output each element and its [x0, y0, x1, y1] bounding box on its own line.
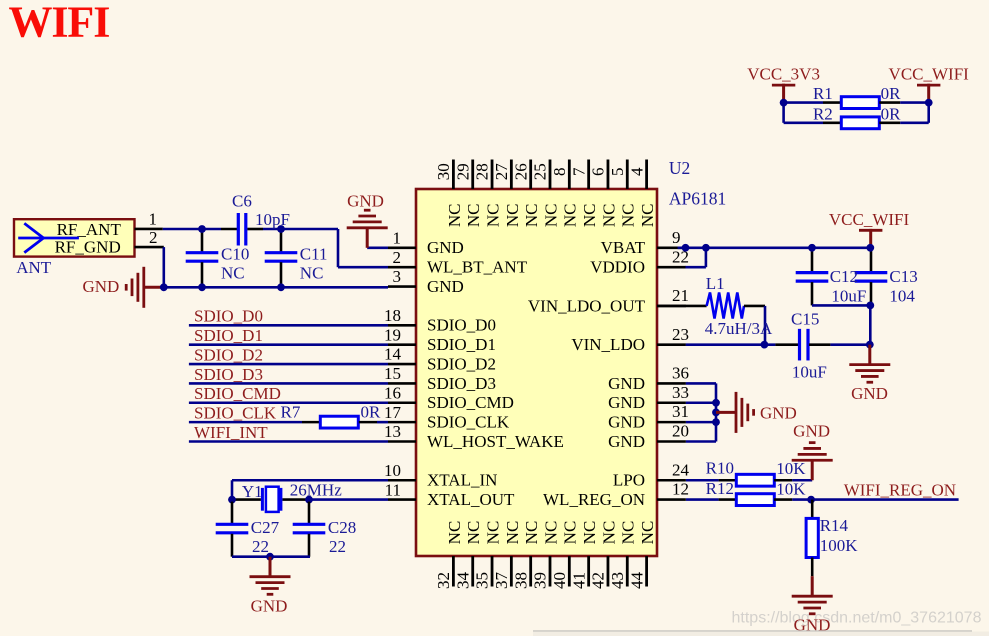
- svg-text:LPO: LPO: [613, 471, 645, 490]
- svg-text:39: 39: [531, 572, 550, 589]
- svg-text:GND: GND: [608, 374, 645, 393]
- svg-text:12: 12: [672, 480, 689, 499]
- svg-text:VDDIO: VDDIO: [590, 258, 645, 277]
- svg-text:NC: NC: [580, 203, 599, 227]
- svg-text:10K: 10K: [776, 479, 806, 498]
- svg-text:GND: GND: [608, 413, 645, 432]
- svg-text:NC: NC: [619, 203, 638, 227]
- svg-text:C12: C12: [830, 267, 858, 286]
- svg-text:30: 30: [434, 163, 453, 180]
- svg-text:RF_GND: RF_GND: [55, 237, 121, 256]
- svg-text:SDIO_D3: SDIO_D3: [427, 374, 496, 393]
- svg-text:GND: GND: [760, 404, 797, 423]
- svg-text:NC: NC: [638, 203, 657, 227]
- svg-text:43: 43: [608, 572, 627, 589]
- svg-text:7: 7: [569, 167, 588, 176]
- svg-text:26MHz: 26MHz: [290, 481, 342, 500]
- svg-text:U2: U2: [669, 158, 690, 178]
- svg-text:NC: NC: [445, 203, 464, 227]
- svg-text:NC: NC: [541, 521, 560, 545]
- svg-text:100K: 100K: [820, 536, 859, 555]
- svg-text:R10: R10: [706, 459, 734, 478]
- svg-text:NC: NC: [221, 264, 245, 283]
- svg-text:AP6181: AP6181: [669, 189, 726, 209]
- svg-text:22: 22: [252, 537, 269, 556]
- svg-text:C28: C28: [328, 518, 356, 537]
- svg-text:WIFI: WIFI: [9, 0, 110, 46]
- svg-text:GND: GND: [793, 422, 830, 441]
- svg-text:11: 11: [385, 480, 401, 499]
- svg-text:15: 15: [384, 364, 401, 383]
- svg-text:10K: 10K: [776, 459, 806, 478]
- svg-text:NC: NC: [580, 521, 599, 545]
- svg-text:14: 14: [384, 345, 402, 364]
- svg-text:R7: R7: [281, 403, 301, 422]
- svg-text:SDIO_D0: SDIO_D0: [427, 316, 496, 335]
- svg-text:2: 2: [393, 248, 402, 267]
- svg-text:https://blog.csdn.net/m0_37621: https://blog.csdn.net/m0_37621078: [732, 610, 982, 627]
- svg-text:SDIO_CLK: SDIO_CLK: [427, 413, 510, 432]
- svg-text:NC: NC: [483, 203, 502, 227]
- svg-text:NC: NC: [464, 521, 483, 545]
- svg-text:SDIO_CMD: SDIO_CMD: [194, 384, 281, 403]
- svg-text:VCC_3V3: VCC_3V3: [747, 65, 820, 84]
- svg-text:NC: NC: [445, 521, 464, 545]
- svg-text:C27: C27: [251, 518, 280, 537]
- svg-text:104: 104: [889, 286, 915, 305]
- svg-text:VCC_WIFI: VCC_WIFI: [829, 210, 910, 229]
- svg-text:10uF: 10uF: [831, 286, 866, 305]
- svg-text:10uF: 10uF: [792, 363, 827, 382]
- svg-text:25: 25: [531, 163, 550, 180]
- svg-text:NC: NC: [541, 203, 560, 227]
- svg-text:VCC_WIFI: VCC_WIFI: [889, 65, 970, 84]
- svg-text:WIFI_REG_ON: WIFI_REG_ON: [844, 480, 956, 499]
- svg-text:VIN_LDO: VIN_LDO: [571, 335, 645, 354]
- svg-text:41: 41: [569, 572, 588, 589]
- svg-text:1: 1: [393, 229, 402, 248]
- svg-text:18: 18: [384, 306, 401, 325]
- svg-text:NC: NC: [464, 203, 483, 227]
- svg-text:0R: 0R: [881, 105, 902, 124]
- svg-text:GND: GND: [427, 238, 464, 257]
- svg-text:C6: C6: [232, 191, 252, 210]
- svg-text:L1: L1: [706, 274, 725, 293]
- svg-text:WL_BT_ANT: WL_BT_ANT: [427, 258, 528, 277]
- svg-text:RF_ANT: RF_ANT: [57, 220, 122, 239]
- svg-text:NC: NC: [561, 203, 580, 227]
- svg-text:10: 10: [384, 461, 401, 480]
- svg-text:SDIO_D2: SDIO_D2: [427, 354, 496, 373]
- svg-text:44: 44: [627, 572, 646, 590]
- svg-text:GND: GND: [347, 191, 384, 210]
- svg-text:NC: NC: [561, 521, 580, 545]
- svg-text:9: 9: [672, 228, 681, 247]
- svg-text:37: 37: [492, 572, 511, 590]
- svg-text:NC: NC: [300, 264, 324, 283]
- svg-text:5: 5: [608, 168, 627, 177]
- svg-text:2: 2: [149, 228, 158, 247]
- svg-text:40: 40: [550, 572, 569, 589]
- svg-text:34: 34: [453, 572, 472, 590]
- svg-text:SDIO_D3: SDIO_D3: [194, 365, 263, 384]
- svg-text:NC: NC: [599, 203, 618, 227]
- svg-text:GND: GND: [427, 277, 464, 296]
- svg-text:GND: GND: [851, 384, 888, 403]
- svg-text:21: 21: [672, 286, 689, 305]
- svg-text:8: 8: [550, 168, 569, 177]
- svg-text:SDIO_D2: SDIO_D2: [194, 345, 263, 364]
- svg-text:28: 28: [473, 163, 492, 180]
- svg-text:4.7uH/3A: 4.7uH/3A: [705, 319, 773, 338]
- svg-text:24: 24: [672, 460, 690, 479]
- svg-text:WL_HOST_WAKE: WL_HOST_WAKE: [427, 432, 564, 451]
- svg-text:ANT: ANT: [16, 258, 52, 277]
- svg-text:3: 3: [393, 267, 402, 286]
- svg-text:17: 17: [384, 403, 402, 422]
- svg-text:XTAL_OUT: XTAL_OUT: [427, 490, 515, 509]
- svg-text:10pF: 10pF: [255, 210, 290, 229]
- svg-text:GND: GND: [251, 597, 288, 616]
- svg-text:VIN_LDO_OUT: VIN_LDO_OUT: [528, 296, 646, 315]
- svg-text:XTAL_IN: XTAL_IN: [427, 471, 497, 490]
- svg-text:SDIO_CLK: SDIO_CLK: [194, 404, 277, 423]
- svg-text:NC: NC: [503, 203, 522, 227]
- svg-text:23: 23: [672, 325, 689, 344]
- svg-text:19: 19: [384, 325, 401, 344]
- svg-text:42: 42: [589, 572, 608, 589]
- svg-text:26: 26: [511, 163, 530, 180]
- svg-text:R2: R2: [813, 105, 833, 124]
- svg-text:NC: NC: [638, 521, 657, 545]
- svg-text:SDIO_CMD: SDIO_CMD: [427, 393, 514, 412]
- svg-text:16: 16: [384, 383, 401, 402]
- svg-text:4: 4: [627, 167, 646, 176]
- svg-text:13: 13: [384, 422, 401, 441]
- svg-text:C15: C15: [791, 309, 819, 328]
- svg-text:GND: GND: [82, 277, 119, 296]
- svg-text:GND: GND: [608, 432, 645, 451]
- svg-text:VBAT: VBAT: [601, 238, 646, 257]
- svg-text:C11: C11: [300, 245, 328, 264]
- svg-text:38: 38: [511, 572, 530, 589]
- svg-text:GND: GND: [608, 393, 645, 412]
- svg-text:20: 20: [672, 422, 689, 441]
- svg-text:NC: NC: [522, 203, 541, 227]
- svg-text:36: 36: [672, 363, 689, 382]
- svg-text:R14: R14: [820, 516, 849, 535]
- svg-text:27: 27: [492, 163, 511, 181]
- svg-text:1: 1: [149, 209, 158, 228]
- svg-text:6: 6: [589, 168, 608, 177]
- svg-text:NC: NC: [619, 521, 638, 545]
- svg-text:0R: 0R: [881, 84, 902, 103]
- svg-text:NC: NC: [599, 521, 618, 545]
- svg-text:SDIO_D0: SDIO_D0: [194, 307, 263, 326]
- svg-text:R12: R12: [706, 479, 734, 498]
- svg-text:SDIO_D1: SDIO_D1: [194, 326, 263, 345]
- svg-text:31: 31: [672, 402, 689, 421]
- svg-text:29: 29: [453, 163, 472, 180]
- svg-text:WL_REG_ON: WL_REG_ON: [543, 490, 645, 509]
- svg-text:NC: NC: [522, 521, 541, 545]
- svg-text:C10: C10: [221, 245, 249, 264]
- svg-text:C13: C13: [889, 267, 917, 286]
- svg-text:33: 33: [672, 383, 689, 402]
- svg-text:NC: NC: [483, 521, 502, 545]
- svg-text:22: 22: [329, 537, 346, 556]
- svg-text:WIFI_INT: WIFI_INT: [194, 423, 268, 442]
- svg-text:SDIO_D1: SDIO_D1: [427, 335, 496, 354]
- svg-text:NC: NC: [503, 521, 522, 545]
- svg-text:0R: 0R: [361, 403, 382, 422]
- svg-text:R1: R1: [813, 84, 833, 103]
- svg-text:35: 35: [473, 572, 492, 589]
- svg-text:Y1: Y1: [242, 482, 263, 501]
- svg-text:32: 32: [434, 572, 453, 589]
